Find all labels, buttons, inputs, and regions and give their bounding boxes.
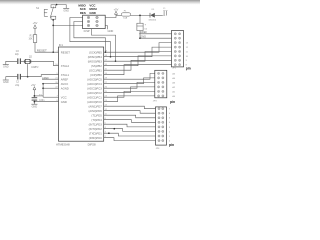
wire PB0 to header pin 8 — [104, 65, 172, 75]
svg-text:(AIN0)PD6: (AIN0)PD6 — [89, 109, 103, 113]
wire +5V to R1 — [34, 28, 36, 35]
power +5V arrow above R1 — [33, 21, 38, 28]
wire C2 to ground — [6, 77, 17, 80]
capacitor C2 — [17, 74, 21, 80]
JP2 pad row2 x175.3 — [174, 37, 176, 39]
ISP pad row1 col1 — [87, 16, 89, 18]
svg-text:+5V: +5V — [114, 8, 119, 12]
svg-text:pin: pin — [170, 100, 175, 104]
wire D1 to X1 — [155, 14, 163, 16]
JP3 pad row4 x162.9 — [162, 86, 164, 88]
JP3 pad row6 x162.9 — [162, 95, 164, 97]
wire ISP GND stub — [105, 26, 107, 30]
junction RESET to ISP RES — [52, 25, 54, 27]
JP2 pad row3 x179.6 — [179, 42, 181, 44]
junction at switch top terminal — [56, 4, 58, 6]
JP4 pad row7 x159.0 — [158, 135, 160, 137]
svg-text:IC1: IC1 — [59, 43, 64, 47]
switch S1 button (E shape) — [44, 9, 48, 16]
junction C6/GND rail — [139, 37, 141, 39]
JP4 pad row6 x162.8 — [162, 130, 164, 132]
JP2 pad row5 x175.3 — [174, 50, 176, 52]
ISP pad row3 col2 — [96, 24, 98, 26]
svg-text:(MOSI)PB3: (MOSI)PB3 — [88, 59, 103, 63]
svg-text:pin: pin — [169, 143, 174, 147]
connector JP4 box — [156, 107, 167, 145]
ISP pad row2 col2 — [96, 20, 98, 22]
svg-text:GND: GND — [63, 10, 69, 13]
wire PD4 to header pin 4 — [104, 120, 156, 123]
wire switch top to GND — [57, 5, 67, 9]
junction MOSI/PB3 — [115, 60, 117, 62]
wire PD0 to header pin 0 — [104, 138, 156, 141]
capacitor C1 — [32, 97, 38, 100]
svg-text:(ADC1)PC1: (ADC1)PC1 — [87, 95, 102, 99]
wire PD5 to header pin 5 — [104, 115, 156, 118]
ISP pad row3 col1 — [87, 24, 89, 26]
wire PC2 to analog header A2 — [104, 87, 155, 93]
ISP pad row1 col2 — [96, 16, 98, 18]
wire PD2 to header pin 2 — [104, 129, 156, 132]
svg-text:(INT0)PD2: (INT0)PD2 — [89, 127, 103, 131]
wire C2 to XTAL1 — [21, 75, 59, 77]
svg-text:(RXD)PD0: (RXD)PD0 — [89, 136, 102, 140]
junction AVCC — [42, 83, 44, 85]
svg-text:(SS)PB2: (SS)PB2 — [91, 64, 102, 68]
JP3 pad row4 x158.6 — [158, 86, 160, 88]
wire C1 to GND pin row — [34, 101, 58, 102]
svg-text:GND: GND — [61, 100, 67, 104]
JP4 pad row8 x162.8 — [162, 140, 164, 142]
JP2 pad row4 x179.6 — [179, 46, 181, 48]
svg-text:(OC1)PB1: (OC1)PB1 — [89, 68, 102, 72]
wire +5V arrow stem — [33, 90, 35, 96]
power plug X1 — [163, 8, 168, 15]
JP4 pad row3 x162.8 — [162, 117, 164, 119]
wire to AVCC pin — [43, 83, 58, 85]
JP4 pad row4 x159.0 — [158, 121, 160, 123]
svg-text:+5V: +5V — [33, 21, 38, 25]
JP3 pad row3 x158.6 — [158, 81, 160, 83]
wire ISP VCC to +5V — [105, 15, 116, 17]
svg-text:(ADC4)PC4: (ADC4)PC4 — [87, 82, 102, 86]
JP2 pad row8 x175.3 — [174, 64, 176, 66]
svg-text:RESET: RESET — [37, 49, 47, 53]
JP2 pad row7 x175.3 — [174, 59, 176, 61]
diode D1 — [150, 13, 155, 18]
wire R1 to RESET net — [35, 43, 59, 53]
op-amp IC1 ATMEGA8 box — [59, 47, 104, 141]
wire GND pin node to ground — [33, 102, 35, 104]
wire PB1 to header pin 9 — [104, 60, 172, 70]
svg-text:AREF: AREF — [61, 77, 69, 81]
JP4 pad row1 x162.8 — [162, 108, 164, 110]
svg-text:GND: GND — [89, 11, 95, 15]
power +5V arrow at ISP — [114, 8, 119, 15]
ground symbol below C1 — [31, 104, 37, 108]
ground symbol left of C3 — [3, 65, 9, 69]
svg-text:(ADC2)PC2: (ADC2)PC2 — [87, 91, 102, 95]
svg-text:RESET: RESET — [61, 50, 70, 54]
JP3 pad row5 x158.6 — [158, 90, 160, 92]
svg-text:GND: GND — [32, 105, 38, 108]
svg-text:(ADC0)PC0: (ADC0)PC0 — [87, 100, 102, 104]
JP3 pad row5 x162.9 — [162, 90, 164, 92]
wire PD1 to header pin 1 — [104, 133, 156, 136]
junction SCK/PB5 — [105, 51, 107, 53]
wire PC1 to analog header A1 — [104, 91, 155, 97]
top shadow band — [0, 0, 200, 5]
svg-text:VCC: VCC — [61, 95, 67, 99]
wire PD3 to header pin 3 — [104, 124, 156, 127]
crystal Q2 — [24, 59, 31, 63]
fuse F1 — [121, 13, 130, 16]
switch S1 top contact — [51, 5, 56, 8]
wire GND rail — [139, 37, 171, 39]
svg-text:(ICP)PB0: (ICP)PB0 — [90, 73, 102, 77]
JP2 pad row1 x179.6 — [179, 33, 181, 35]
wire PD6 to header pin 6 — [104, 111, 156, 114]
svg-text:AGND: AGND — [61, 86, 69, 90]
wire PB2 to header pin 10 — [104, 56, 172, 66]
wire C6 top lead — [139, 15, 141, 23]
JP3 pad row1 x162.9 — [162, 72, 164, 74]
svg-text:(T0)PD4: (T0)PD4 — [91, 118, 102, 122]
switch S1 bottom contact — [51, 16, 56, 19]
power +5V arrow (AVCC) — [33, 87, 36, 90]
JP2 pad row6 x179.6 — [179, 55, 181, 57]
junction on PD2 net — [113, 128, 115, 130]
svg-text:ATMEGA8: ATMEGA8 — [56, 143, 70, 147]
JP3 pad row3 x162.9 — [162, 81, 164, 83]
svg-text:10A: 10A — [123, 17, 127, 20]
junction RESET wire — [52, 51, 54, 53]
JP2 pad row4 x175.3 — [174, 46, 176, 48]
JP3 pad row6 x158.6 — [158, 95, 160, 97]
svg-text:+5V: +5V — [31, 84, 36, 87]
wire +5V arrow to power rail — [115, 14, 117, 15]
wire PB3 to header pin 11 — [104, 52, 172, 62]
JP2 pad row3 x175.3 — [174, 42, 176, 44]
junction MISO/PB4 — [110, 56, 112, 58]
svg-text:GND: GND — [108, 29, 114, 33]
wire PD7 to header pin 7 — [104, 106, 156, 109]
wire AREF stub — [42, 78, 59, 80]
junction power rail / C6 — [139, 15, 141, 17]
JP4 pad row3 x159.0 — [158, 117, 160, 119]
capacitor C6 electrolytic — [137, 23, 143, 30]
svg-text:(SCK)PB5: (SCK)PB5 — [89, 50, 102, 54]
JP4 pad row6 x159.0 — [158, 130, 160, 132]
JP2 pad row1 x175.3 — [174, 33, 176, 35]
JP4 pad row2 x159.0 — [158, 112, 160, 114]
svg-text:(INT1)PD3: (INT1)PD3 — [89, 122, 103, 126]
connector SV1 ICSP box — [83, 15, 106, 28]
svg-text:XTAL1: XTAL1 — [61, 73, 70, 77]
JP3 pad row1 x158.6 — [158, 72, 160, 74]
JP2 pad row2 x179.6 — [179, 37, 181, 39]
junction AGND — [42, 87, 44, 89]
ground symbol left of C2 — [3, 80, 9, 84]
junction at switch bottom terminal — [52, 19, 54, 21]
wire C3 to crystal node — [21, 61, 59, 65]
wire ISP MOSI to PB3 — [91, 29, 115, 62]
svg-text:1N4004: 1N4004 — [148, 20, 156, 22]
JP2 pad row8 x179.6 — [179, 64, 181, 66]
JP3 pad row2 x158.6 — [158, 77, 160, 79]
JP4 pad row5 x159.0 — [158, 126, 160, 128]
svg-text:DIP28: DIP28 — [88, 143, 96, 147]
capacitor C3 — [17, 58, 21, 64]
svg-text:GND: GND — [3, 66, 9, 69]
JP3 pad row2 x162.9 — [162, 77, 164, 79]
svg-text:(MISO)PB4: (MISO)PB4 — [88, 55, 103, 59]
connector JP3 box — [155, 70, 167, 98]
wire to AGND pin — [43, 87, 58, 89]
wire F1 to junction — [131, 14, 150, 16]
wire PC5 to analog header A5 — [104, 73, 155, 79]
wire AREF rail — [139, 33, 171, 35]
wire RESET junction to ISP RES pin — [53, 24, 82, 26]
wire PC4 to analog header A4 — [104, 78, 155, 84]
svg-text:(ADC5)PC5: (ADC5)PC5 — [87, 77, 102, 81]
JP4 pad row1 x159.0 — [158, 108, 160, 110]
wire PC0 to analog header A0 — [104, 96, 155, 102]
ground symbol near switch — [63, 8, 69, 12]
wire ISP SCK to PB5 — [74, 22, 106, 53]
svg-text:S1: S1 — [36, 6, 40, 10]
JP4 pad row8 x159.0 — [158, 140, 160, 142]
wire PB5 to header pin 13 — [104, 43, 172, 53]
junction C1/GND — [34, 101, 36, 103]
svg-text:pin: pin — [186, 66, 191, 70]
wire to VCC pin — [43, 96, 58, 98]
wire C3 to ground — [6, 61, 17, 64]
JP4 pad row7 x162.8 — [162, 135, 164, 137]
resistor R1 — [33, 35, 37, 43]
svg-text:AVCC: AVCC — [61, 82, 68, 86]
wire AVCC riser — [42, 84, 44, 98]
wire +5V node to AVCC riser — [34, 95, 43, 97]
svg-text:RES: RES — [80, 11, 86, 15]
junction crystal / C2 node — [27, 76, 29, 78]
JP4 pad row2 x162.8 — [162, 112, 164, 114]
connector JP2 box — [172, 31, 184, 67]
wire crystal to XTAL1 node — [27, 64, 29, 77]
svg-text:(T1)PD5: (T1)PD5 — [91, 113, 102, 117]
JP2 pad row6 x175.3 — [174, 55, 176, 57]
svg-text:XTAL2: XTAL2 — [61, 64, 70, 68]
junction +5V / C1 — [34, 95, 36, 97]
svg-text:(TXD)PD1: (TXD)PD1 — [89, 131, 102, 135]
svg-text:GND: GND — [3, 81, 9, 84]
switch S1 actuator — [50, 7, 53, 18]
JP2 pad row5 x179.6 — [179, 50, 181, 52]
wire PB4 to header pin 12 — [104, 47, 172, 57]
wire power rail left — [116, 14, 121, 16]
svg-text:ICSP: ICSP — [84, 29, 90, 33]
svg-text:10K: 10K — [29, 39, 34, 41]
junction on PD1 net — [108, 132, 110, 134]
wire PC3 to analog header A3 — [104, 82, 155, 88]
ISP pad row2 col1 — [87, 20, 89, 22]
wire ISP MISO to PB4 — [70, 18, 111, 57]
wire switch bottom down to RESET net — [52, 20, 54, 52]
svg-text:(ADC3)PC3: (ADC3)PC3 — [87, 86, 102, 90]
JP4 pad row4 x162.8 — [162, 121, 164, 123]
JP4 pad row5 x162.8 — [162, 126, 164, 128]
svg-text:(AIN1)PD7: (AIN1)PD7 — [89, 104, 103, 108]
svg-text:16MHz: 16MHz — [31, 67, 39, 69]
wire C1 top lead — [33, 96, 35, 97]
JP2 pad row7 x179.6 — [179, 59, 181, 61]
wire C6 to GND rail — [139, 31, 141, 39]
